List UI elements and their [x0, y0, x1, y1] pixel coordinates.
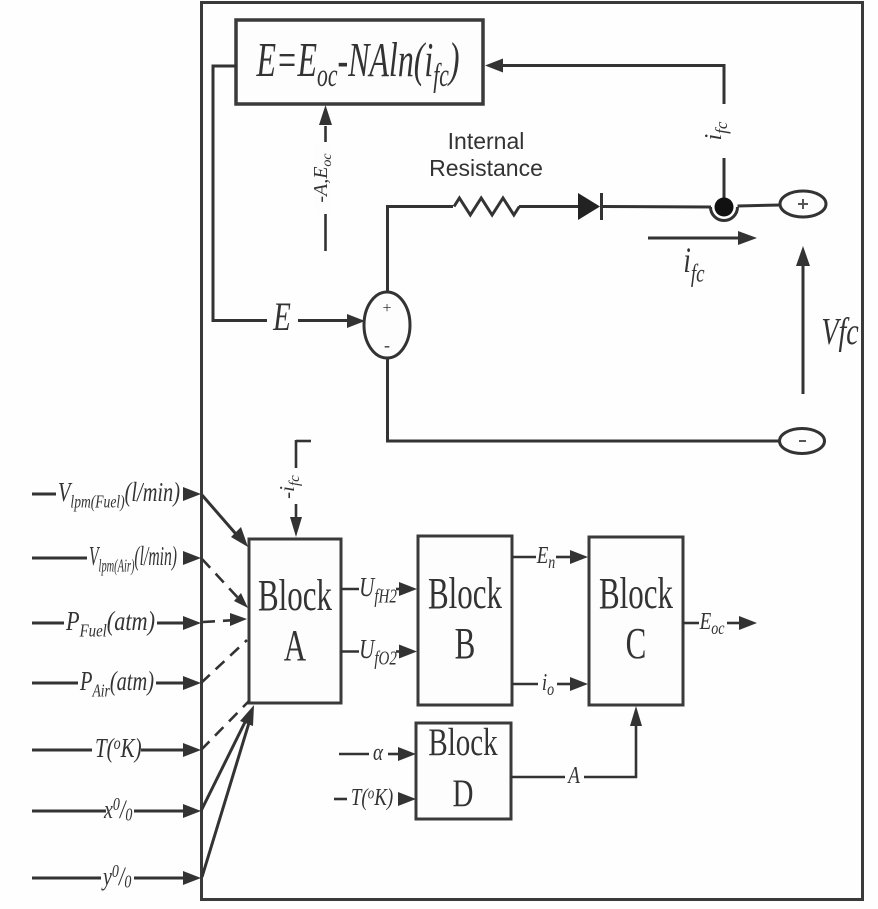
svg-text:A: A — [284, 622, 306, 671]
svg-text:D: D — [453, 772, 474, 815]
controlled voltage source E — [364, 292, 410, 358]
fan wire 4 dashed to Block A — [201, 640, 247, 683]
label alpha — [373, 738, 383, 766]
wire A from Block D to Block C — [511, 706, 642, 778]
wire UfH2 Block A to Block B — [341, 582, 417, 596]
label Internal Resistance — [429, 128, 543, 181]
svg-text:Internal: Internal — [448, 128, 525, 154]
svg-text:Block: Block — [599, 570, 674, 619]
label P Air (atm) — [79, 666, 154, 701]
Block D — [416, 721, 511, 819]
fan wire 5 dashed to Block A — [201, 701, 249, 750]
- output terminal — [780, 429, 825, 454]
svg-text:A: A — [566, 761, 580, 789]
resistor (internal resistance) — [454, 198, 519, 215]
input 5 T(K) — [32, 743, 201, 757]
ifc current arrow — [648, 231, 757, 245]
input 1 V lpm(Fuel)(l/min) — [32, 487, 201, 501]
label Eoc — [699, 607, 725, 639]
label En — [536, 541, 555, 573]
input 2 V lpm(Air)(l/min) — [32, 551, 201, 565]
label V lpm(Fuel)(l/min) — [58, 477, 180, 512]
label A — [566, 761, 580, 789]
wire node to + terminal — [738, 205, 781, 206]
wire En Block B to Block C — [512, 550, 588, 564]
input alpha to Block D — [339, 747, 416, 761]
fan wire 2 dashed to Block A — [202, 559, 248, 608]
input 3 P Fuel (atm) — [32, 616, 201, 630]
wire io Block B to Block C — [512, 677, 588, 691]
svg-text:E=Eoc-NAln(ifc): E=Eoc-NAln(ifc) — [256, 34, 460, 93]
wire: bottom return from source to - terminal — [386, 357, 780, 443]
wire Eoc output of Block C — [683, 616, 757, 630]
outer model boundary box — [202, 3, 863, 900]
svg-text:E: E — [272, 294, 291, 339]
label V lpm(Air)(l/min) — [89, 541, 177, 576]
label io — [542, 668, 554, 700]
Block C — [589, 537, 683, 705]
label T(deg K) input 5 — [95, 733, 142, 763]
label Vfc — [821, 311, 858, 353]
fan wire 6 solid to Block A corner — [201, 712, 250, 811]
label ifc (rotated) on feedback wire — [701, 121, 731, 140]
wire: E from equation block to source — [213, 65, 365, 329]
equation block E=Eoc-NAln(ifc) — [236, 20, 483, 104]
svg-text:+: + — [382, 300, 391, 317]
label ifc (rotated) above Block A — [275, 475, 303, 499]
svg-text:Vfc: Vfc — [821, 311, 858, 353]
label -A,Eoc (rotated) — [310, 142, 335, 214]
input 7 y% — [32, 871, 201, 885]
wire UfO2 Block A to Block B — [341, 645, 417, 659]
svg-text:B: B — [455, 620, 476, 669]
svg-text:-: - — [384, 335, 390, 355]
wire diode to node — [602, 205, 711, 209]
fan wire 7 solid to Block A corner — [202, 713, 252, 877]
diode — [578, 193, 602, 220]
svg-text:Block: Block — [428, 721, 498, 764]
label y% — [101, 862, 131, 893]
wire resistor to diode — [519, 205, 579, 208]
dashed arrow -A,Eoc into equation block — [319, 105, 332, 251]
svg-text:α: α — [373, 738, 383, 766]
label UfH2 — [359, 572, 397, 607]
corner arrowhead into Block A bottom-left — [240, 705, 254, 726]
input 6 x% — [32, 804, 201, 818]
fan wire 1 solid to Block A — [202, 495, 248, 547]
arrow ifc into Block A top — [290, 440, 311, 537]
svg-text:Resistance: Resistance — [429, 155, 543, 181]
node junction (ifc node) — [711, 198, 738, 221]
svg-text:PAir(atm): PAir(atm) — [79, 666, 154, 701]
label x% — [103, 795, 132, 826]
input T(K) to Block D — [334, 792, 416, 806]
svg-text:C: C — [626, 620, 647, 669]
fan wire 3 dashed to Block A — [203, 613, 247, 626]
label T(deg K) — [351, 783, 393, 811]
Vfc measurement arrow — [796, 246, 810, 394]
label E — [272, 294, 291, 339]
svg-text:Block: Block — [428, 570, 503, 619]
wire: feedback ifc from node to equation block — [485, 59, 724, 201]
wire: source top to resistor — [386, 205, 453, 293]
svg-text:Block: Block — [258, 572, 333, 621]
input 4 P Air (atm) — [32, 676, 201, 690]
Block A — [249, 539, 341, 703]
+ output terminal — [780, 191, 826, 217]
label UfO2 — [359, 634, 397, 669]
label P Fuel (atm) — [65, 606, 155, 641]
label ifc below current arrow — [683, 239, 704, 287]
svg-text:PFuel(atm): PFuel(atm) — [65, 606, 155, 641]
Block B — [418, 536, 512, 705]
